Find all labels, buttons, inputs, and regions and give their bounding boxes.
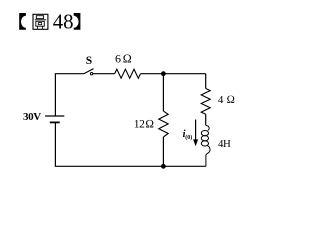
title right lenticular bracket <box>74 13 81 30</box>
svg-text:4H: 4H <box>218 138 231 150</box>
svg-text:4 Ω: 4 Ω <box>218 94 236 106</box>
battery 30V short plate <box>50 121 60 123</box>
wire switch to 6-ohm resistor <box>93 73 115 75</box>
svg-text:(0): (0) <box>185 134 192 141</box>
resistor 4-ohm zigzag <box>201 89 210 115</box>
wire middle branch upper <box>162 74 164 111</box>
wire 6-ohm to top-right corner <box>141 73 206 75</box>
wire 4-ohm to inductor <box>205 114 207 125</box>
node junction bottom (middle branch) <box>161 164 166 169</box>
wire right branch upper <box>205 74 207 89</box>
svg-text:6Ω: 6Ω <box>115 51 133 65</box>
wire middle branch lower <box>162 137 164 166</box>
svg-text:30V: 30V <box>23 111 41 123</box>
svg-text:48: 48 <box>53 10 74 33</box>
wire top-left (corner to switch) <box>55 74 83 117</box>
current arrow i0 shaft <box>195 120 197 141</box>
switch S blade <box>83 69 93 74</box>
title glyph tu (picture) <box>33 14 48 29</box>
battery 30V long plate <box>45 115 64 117</box>
resistor 12-ohm zigzag <box>159 111 168 137</box>
inductor 4H coil <box>201 125 210 166</box>
switch S contact <box>90 73 92 75</box>
wire battery to bottom-left corner <box>55 122 163 166</box>
current arrow i0 head <box>193 139 198 146</box>
resistor 6-ohm zigzag <box>115 69 141 78</box>
title left lenticular bracket <box>19 13 26 30</box>
svg-text:S: S <box>86 55 92 67</box>
node junction top (middle branch) <box>161 71 166 76</box>
svg-text:12 Ω: 12 Ω <box>134 118 155 130</box>
wire inductor to bottom wire <box>163 165 206 167</box>
